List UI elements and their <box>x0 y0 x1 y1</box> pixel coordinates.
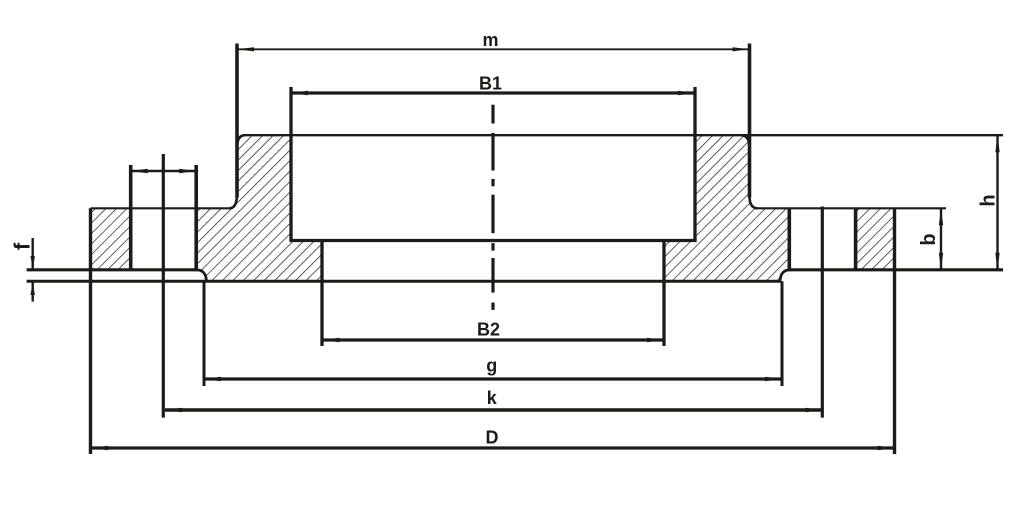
bolt hole right wall <box>194 165 198 270</box>
right bolt hole centre line (+k extension) <box>821 207 824 418</box>
hub outer wall left (+m extension) <box>235 44 239 198</box>
svg-text:h: h <box>978 194 1000 206</box>
raised face step fillet left <box>196 270 207 281</box>
bore shoulder line <box>289 239 696 242</box>
dimension k line <box>165 408 822 411</box>
dimension g line <box>204 377 782 380</box>
svg-text:k: k <box>487 388 498 408</box>
raised face step fillet right <box>780 270 791 281</box>
D arrows <box>91 446 108 451</box>
g extension right <box>781 281 784 386</box>
b arrows <box>939 208 943 225</box>
hatch left outer rim section <box>91 208 131 269</box>
arrowheads <box>31 47 1000 450</box>
hub top face line (+h extension) <box>243 134 1003 136</box>
right bolt hole left wall <box>787 208 791 269</box>
svg-text:m: m <box>482 30 498 50</box>
bore B1 wall right (+B1 extension) <box>693 87 696 241</box>
B1 arrows <box>291 91 308 96</box>
bottom face left (+f extension) <box>27 268 198 271</box>
svg-text:f: f <box>10 242 35 250</box>
dimension b line <box>940 208 942 269</box>
f arrows (outside) <box>31 256 35 270</box>
hub top-left corner round <box>237 135 245 148</box>
dimension f line <box>32 238 34 270</box>
flange outer edge right (+D extension) <box>893 208 896 454</box>
B2 arrows <box>323 338 340 343</box>
plate top face left <box>91 207 230 209</box>
hub base fillet right <box>750 196 758 208</box>
bolt hole dia dimension line <box>131 170 197 172</box>
hatch right outer rim section <box>856 208 895 269</box>
hub outer wall right (+m extension) <box>748 44 752 198</box>
hatch left hub+plate section <box>196 135 322 281</box>
dimension D line <box>91 446 895 449</box>
g arrows <box>204 377 221 382</box>
bore B1 wall left (+B1 extension) <box>289 87 292 241</box>
bolt hole centre line (+k extension) <box>162 154 165 418</box>
dimension B2 line <box>323 338 665 341</box>
hatch right hub+plate section <box>664 135 791 281</box>
bore B2 wall right (+B2 extension) <box>662 241 665 347</box>
bottom face right (+h extension) <box>789 268 1003 271</box>
h arrows <box>995 135 999 152</box>
centre line (dashed) <box>491 105 494 310</box>
bore B2 wall left (+B2 extension) <box>320 241 323 347</box>
flange outer edge left (+D extension) <box>89 208 92 454</box>
svg-text:B2: B2 <box>477 320 500 340</box>
svg-text:D: D <box>486 427 499 447</box>
g extension left <box>203 281 206 386</box>
right bolt hole right wall <box>854 208 858 269</box>
dimension B1 line <box>291 91 695 94</box>
m arrows <box>237 47 254 51</box>
hub top-right corner round <box>741 135 750 148</box>
k arrows <box>165 408 182 413</box>
raised face bottom (+f extension) <box>27 280 782 283</box>
dimension h line <box>996 135 998 270</box>
bolt hole dim arrows <box>131 169 148 173</box>
svg-text:g: g <box>486 355 497 375</box>
dimension m line <box>237 48 750 50</box>
bolt hole left wall <box>129 165 133 270</box>
plate top face right (+b extension) <box>758 207 947 209</box>
hub base fillet left <box>230 194 238 208</box>
svg-text:b: b <box>918 233 940 245</box>
svg-text:B1: B1 <box>479 74 502 94</box>
